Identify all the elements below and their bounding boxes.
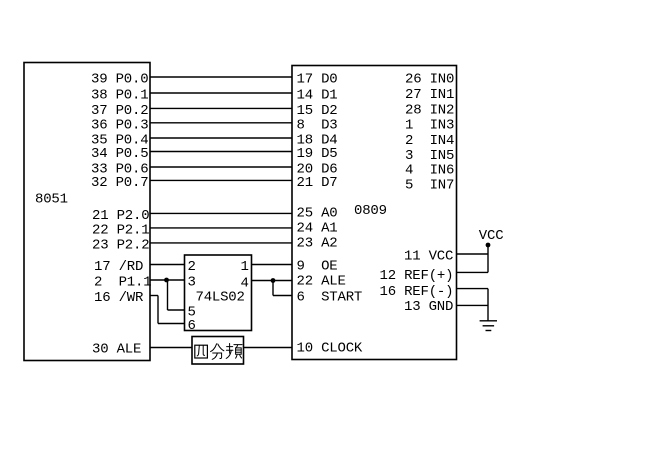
svg-text:2: 2 [188,259,196,275]
svg-text:30 ALE: 30 ALE [92,342,141,358]
svg-text:4 IN6: 4 IN6 [405,163,454,179]
svg-text:22 ALE: 22 ALE [297,274,346,290]
svg-text:74LS02: 74LS02 [196,290,245,306]
svg-text:23 A2: 23 A2 [297,236,338,252]
svg-text:39 P0.0: 39 P0.0 [91,72,148,88]
svg-text:11 VCC: 11 VCC [404,249,453,265]
svg-text:36 P0.3: 36 P0.3 [91,117,148,133]
svg-text:10 CLOCK: 10 CLOCK [297,341,363,357]
svg-text:14 D1: 14 D1 [297,88,338,104]
svg-text:27 IN1: 27 IN1 [405,87,454,103]
svg-text:1: 1 [241,259,249,275]
svg-text:19 D5: 19 D5 [297,146,338,162]
svg-text:VCC: VCC [479,228,504,244]
svg-text:16 REF(-): 16 REF(-) [380,284,454,300]
svg-text:2 P1.1: 2 P1.1 [94,275,151,291]
svg-text:0809: 0809 [354,203,387,219]
svg-text:38 P0.1: 38 P0.1 [91,88,148,104]
svg-text:25 A0: 25 A0 [297,206,338,222]
svg-text:32 P0.7: 32 P0.7 [91,175,148,191]
svg-text:17 D0: 17 D0 [297,72,338,88]
svg-text:6: 6 [188,318,196,334]
svg-text:16 /WR: 16 /WR [94,290,144,306]
svg-text:28 IN2: 28 IN2 [405,103,454,119]
svg-text:34 P0.5: 34 P0.5 [91,146,148,162]
svg-text:8 D3: 8 D3 [297,117,338,133]
svg-text:5 IN7: 5 IN7 [405,178,454,194]
svg-text:8051: 8051 [35,192,68,208]
svg-text:3: 3 [188,275,196,291]
svg-text:1 IN3: 1 IN3 [405,118,454,134]
svg-text:26 IN0: 26 IN0 [405,72,454,88]
svg-text:21 D7: 21 D7 [297,175,338,191]
svg-text:2 IN4: 2 IN4 [405,133,454,149]
svg-text:23 P2.2: 23 P2.2 [92,237,149,253]
svg-text:13 GND: 13 GND [404,299,453,315]
svg-text:24 A1: 24 A1 [297,221,338,237]
svg-text:17 /RD: 17 /RD [94,259,143,275]
svg-text:6 START: 6 START [297,290,363,306]
svg-text:12 REF(+): 12 REF(+) [380,268,454,284]
svg-text:22 P2.1: 22 P2.1 [92,222,149,238]
svg-text:9 OE: 9 OE [297,259,338,275]
